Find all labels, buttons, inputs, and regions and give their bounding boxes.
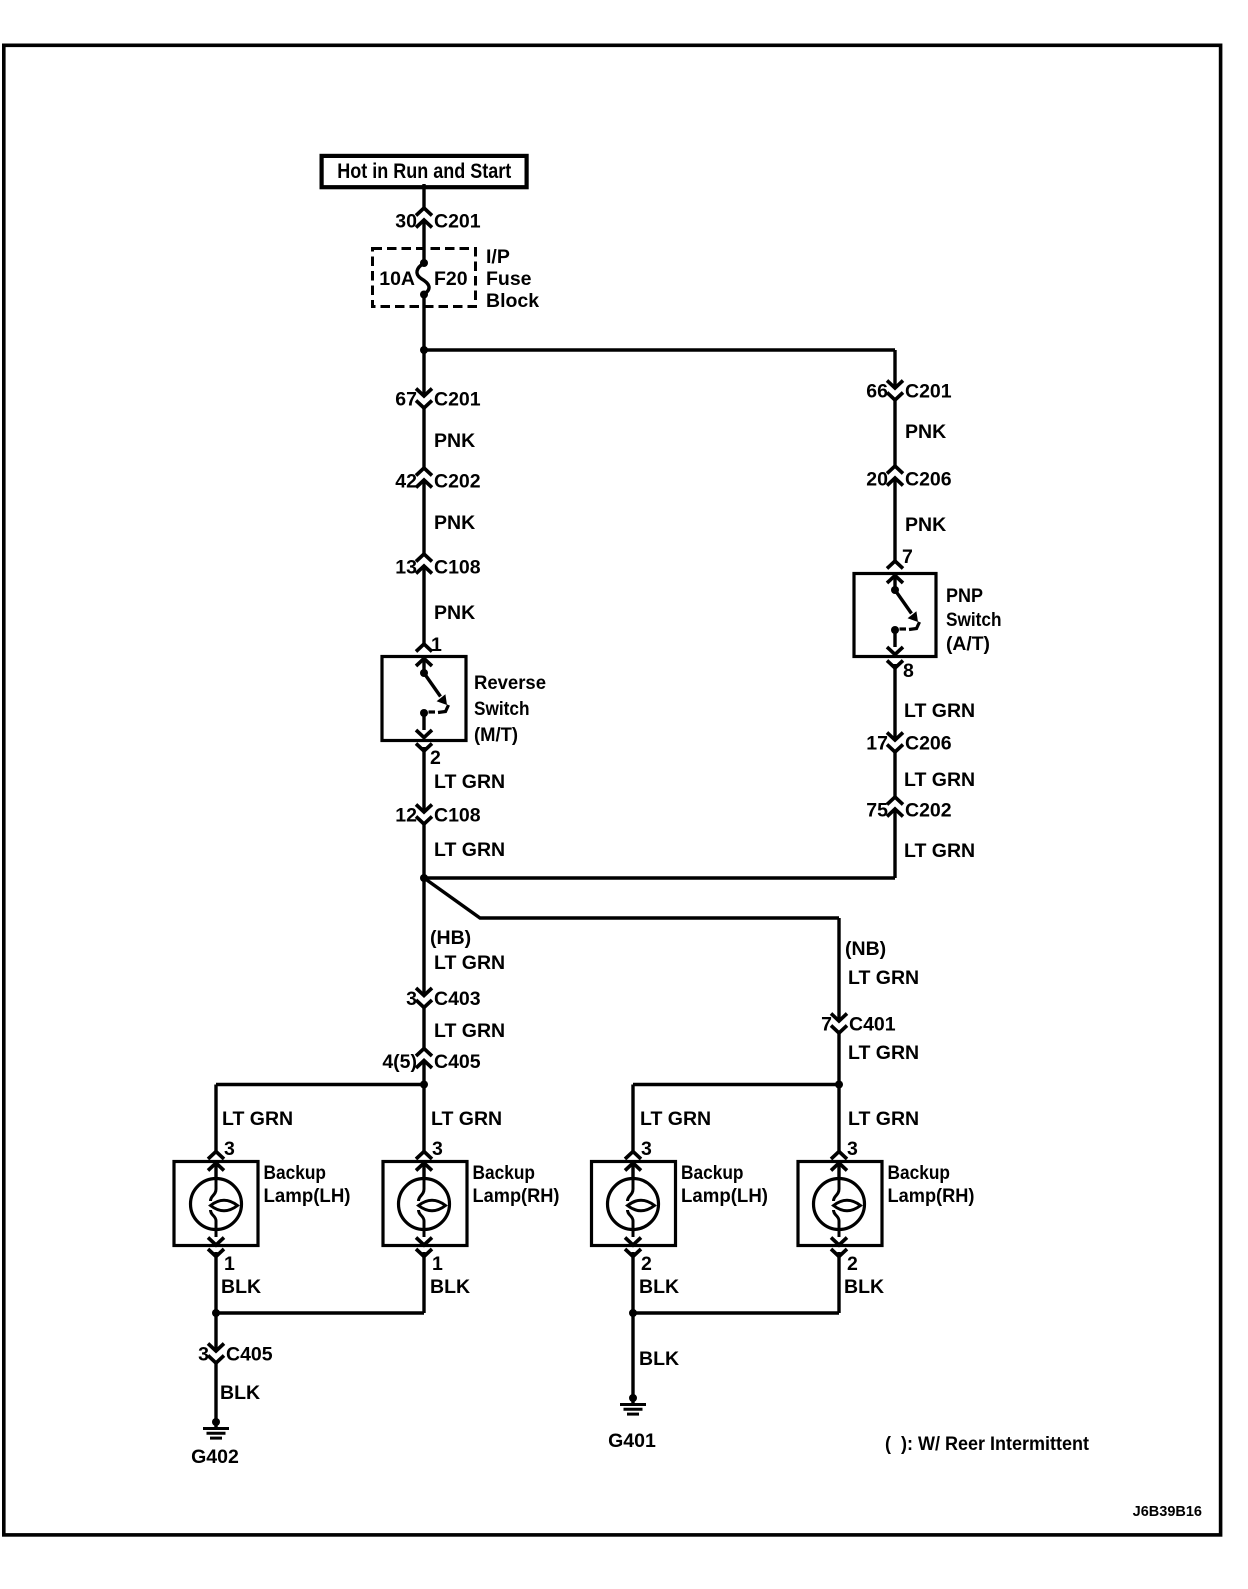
wire label PNK [434,512,475,534]
connector C202 pin 75 [866,797,951,822]
pin 1 label [431,634,442,656]
svg-text:7: 7 [821,1014,832,1036]
svg-text:C206: C206 [905,469,952,491]
svg-text:C108: C108 [434,557,481,579]
svg-text:PNK: PNK [905,514,946,536]
wire [214,1313,217,1349]
svg-text:LT GRN: LT GRN [904,769,975,791]
svg-text:C201: C201 [434,389,481,411]
wire label LT GRN [904,700,975,722]
svg-text:LT GRN: LT GRN [904,700,975,722]
PNP switch box [854,574,936,657]
backup lamp LH (notchback) [592,1138,676,1275]
wire label LT GRN [434,952,505,974]
svg-text:Hot in Run and Start: Hot in Run and Start [337,159,511,183]
wire label LT GRN [848,1042,919,1064]
svg-text:42: 42 [395,471,417,493]
pin 2 label [430,747,441,769]
svg-text:Lamp(RH): Lamp(RH) [473,1185,560,1207]
svg-text:2: 2 [430,747,441,769]
svg-text:Switch: Switch [946,609,1002,631]
svg-text:C401: C401 [849,1014,896,1036]
svg-text:BLK: BLK [430,1276,470,1298]
svg-text:12: 12 [395,805,417,827]
wire [422,350,425,394]
wire label BLK [639,1276,679,1298]
wire [422,747,425,810]
svg-text:C405: C405 [434,1051,481,1073]
svg-text:LT GRN: LT GRN [640,1108,711,1130]
svg-text:8: 8 [903,660,914,682]
svg-text:G402: G402 [191,1446,239,1468]
svg-text:3: 3 [432,1138,443,1160]
wire [422,222,425,262]
svg-text:LT GRN: LT GRN [431,1108,502,1130]
wire label LT GRN [848,1108,919,1130]
connector C201 pin 30 [395,208,480,233]
svg-text:66: 66 [866,381,888,403]
svg-text:30: 30 [395,211,417,233]
wire [422,878,425,993]
wire [422,568,425,644]
svg-text:3: 3 [406,988,417,1010]
connector half at PNP bottom [887,661,903,669]
wire [422,1008,425,1049]
svg-text:LT GRN: LT GRN [848,1108,919,1130]
wire label LT GRN [431,1108,502,1130]
lamp label Lamp(LH) [264,1162,351,1207]
connector C405 pin 4(5) [382,1049,480,1074]
svg-text:LT GRN: LT GRN [904,840,975,862]
wire [424,350,895,386]
note W/ Reer Intermittent [885,1433,1089,1455]
svg-text:Lamp(RH): Lamp(RH) [888,1185,975,1207]
lamp label Lamp(RH) [473,1162,560,1207]
svg-text:4(5): 4(5) [382,1051,417,1073]
node junction right pair [835,1081,843,1089]
wire [422,482,425,554]
svg-text:2: 2 [847,1253,858,1275]
svg-text:Switch: Switch [474,698,530,720]
svg-text:C403: C403 [434,988,481,1010]
connector half at switch top [416,644,432,652]
svg-text:C405: C405 [226,1344,273,1366]
fuse F20 10A [379,259,468,299]
svg-text:J6B39B16: J6B39B16 [1133,1504,1202,1520]
svg-text:(A/T): (A/T) [946,633,990,655]
svg-text:C201: C201 [905,381,952,403]
svg-text:Lamp(LH): Lamp(LH) [264,1185,351,1207]
connector half at PNP top [887,561,903,569]
wire label (HB) [430,927,471,949]
svg-text:( ): W/ Reer Intermittent: ( ): W/ Reer Intermittent [885,1433,1089,1455]
wire label LT GRN [434,1020,505,1042]
svg-text:C108: C108 [434,805,481,827]
svg-text:7: 7 [902,546,913,568]
svg-text:PNK: PNK [905,421,946,443]
connector C202 pin 42 [395,468,480,493]
wire label PNK [905,514,946,536]
wire [424,876,895,879]
svg-text:10A: 10A [379,268,415,290]
power source box Hot in Run and Start [322,156,527,187]
svg-text:LT GRN: LT GRN [434,1020,505,1042]
svg-text:2: 2 [641,1253,652,1275]
svg-text:Backup: Backup [681,1162,744,1184]
svg-text:G401: G401 [608,1430,656,1452]
switch S1 internal [416,659,449,738]
ground G401 [608,1394,656,1452]
wire label LT GRN [222,1108,293,1130]
node junction right BLK [629,1309,637,1317]
wire [422,1063,425,1153]
svg-text:Backup: Backup [888,1162,951,1184]
wire [893,664,896,738]
lamp label Lamp(LH) [681,1162,768,1207]
wire label PNK [434,430,475,452]
svg-text:LT GRN: LT GRN [848,1042,919,1064]
svg-text:LT GRN: LT GRN [434,771,505,793]
wire [422,408,425,468]
svg-text:PNK: PNK [434,512,475,534]
svg-text:(HB): (HB) [430,927,471,949]
svg-text:1: 1 [431,634,442,656]
connector C108 pin 12 [395,805,480,827]
svg-text:BLK: BLK [639,1348,679,1370]
ground G402 [191,1418,239,1468]
lamp label Lamp(RH) [888,1162,975,1207]
connector C405 pin 3 [198,1344,273,1366]
svg-text:BLK: BLK [844,1276,884,1298]
svg-text:C202: C202 [905,800,952,822]
wire [837,1033,840,1152]
wire [893,480,896,561]
wire [893,400,896,466]
backup lamp RH (notchback) [798,1138,882,1275]
wire label LT GRN [904,840,975,862]
wire [422,295,425,351]
svg-text:PNK: PNK [434,602,475,624]
node junction left pair [420,1081,428,1089]
svg-text:1: 1 [432,1253,443,1275]
node junction HB/NB [420,874,428,882]
connector C108 pin 13 [395,554,480,579]
connector C403 pin 3 [406,988,481,1010]
wire [893,811,896,878]
svg-text:LT GRN: LT GRN [222,1108,293,1130]
svg-text:13: 13 [395,557,417,579]
wire [422,824,425,878]
node junction top [420,346,428,354]
reverse switch box [382,657,466,741]
wire [893,752,896,797]
svg-text:17: 17 [866,733,888,755]
switch label PNP Switch (A/T) [946,585,1002,655]
pin 8 label [903,660,914,682]
wire label PNK [434,602,475,624]
wire [424,878,839,918]
svg-text:67: 67 [395,389,417,411]
wire [214,1363,217,1422]
svg-text:PNK: PNK [434,430,475,452]
wire [216,1252,424,1313]
wire label LT GRN [434,771,505,793]
drawing number J6B39B16 [1133,1504,1202,1520]
connector half at switch bottom [416,744,432,752]
node junction left BLK [212,1309,220,1317]
svg-text:1: 1 [224,1253,235,1275]
svg-text:75: 75 [866,800,888,822]
switch S2 internal [887,576,920,655]
wire [837,918,840,1019]
wire label BLK [220,1382,260,1404]
svg-text:20: 20 [866,469,888,491]
svg-text:Block: Block [486,290,539,312]
wire [216,1085,424,1153]
svg-text:Lamp(LH): Lamp(LH) [681,1185,768,1207]
pin 7 label [902,546,913,568]
svg-text:BLK: BLK [221,1276,261,1298]
wire [633,1085,839,1153]
wire label BLK [639,1348,679,1370]
connector C201 pin 67 [395,389,480,411]
svg-text:LT GRN: LT GRN [434,952,505,974]
wire label LT GRN [434,839,505,861]
svg-text:C201: C201 [434,211,481,233]
wire label PNK [905,421,946,443]
fuse block dashed box I/P Fuse Block [373,246,540,312]
connector C401 pin 7 [821,1014,896,1036]
connector C201 pin 66 [866,381,951,403]
svg-text:Backup: Backup [264,1162,327,1184]
svg-text:C206: C206 [905,733,952,755]
switch label Reverse Switch (M/T) [474,672,546,746]
svg-text:Reverse: Reverse [474,672,546,694]
svg-text:3: 3 [641,1138,652,1160]
svg-text:BLK: BLK [220,1382,260,1404]
svg-text:Fuse: Fuse [486,268,532,290]
connector C206 pin 17 [866,733,951,755]
svg-text:I/P: I/P [486,246,510,268]
wire [422,184,425,208]
svg-text:3: 3 [224,1138,235,1160]
svg-text:3: 3 [847,1138,858,1160]
svg-text:(NB): (NB) [845,938,886,960]
svg-text:LT GRN: LT GRN [434,839,505,861]
wire label BLK [221,1276,261,1298]
wire [633,1252,839,1313]
wire label (NB) [845,938,886,960]
wire label LT GRN [904,769,975,791]
svg-text:F20: F20 [434,268,468,290]
svg-text:LT GRN: LT GRN [848,967,919,989]
wire label BLK [430,1276,470,1298]
wire [631,1313,634,1398]
svg-text:(M/T): (M/T) [474,724,518,746]
connector C206 pin 20 [866,466,951,491]
svg-text:C202: C202 [434,471,481,493]
svg-text:BLK: BLK [639,1276,679,1298]
svg-text:Backup: Backup [473,1162,536,1184]
backup lamp RH (hatchback) [383,1138,467,1275]
backup lamp LH (hatchback) [174,1138,258,1275]
wire label BLK [844,1276,884,1298]
wire label LT GRN [640,1108,711,1130]
svg-text:PNP: PNP [946,585,983,607]
wire label LT GRN [848,967,919,989]
svg-text:3: 3 [198,1344,209,1366]
